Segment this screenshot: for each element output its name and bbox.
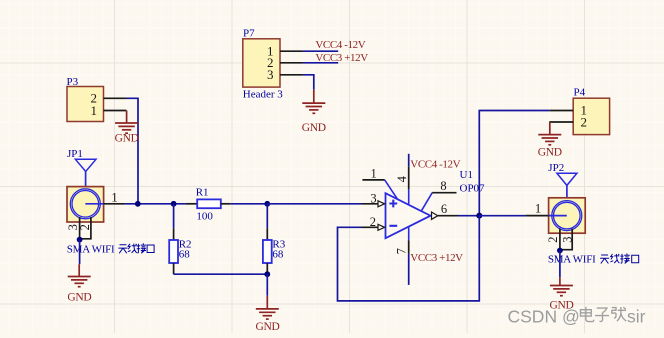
- P4 pin 2: [549, 121, 573, 123]
- P7 pin 3: [280, 74, 303, 76]
- connector P7: [243, 28, 284, 101]
- watermark CSDN @电子张sir: [508, 307, 646, 327]
- svg-text:68: 68: [179, 249, 191, 261]
- svg-text:sir: sir: [627, 307, 646, 327]
- junction node R2 branch: [171, 201, 177, 207]
- wire junction to ground: [266, 274, 268, 296]
- U1 pin 6 output: [432, 202, 459, 219]
- svg-text:CSDN @: CSDN @: [508, 307, 580, 327]
- svg-text:3: 3: [267, 67, 274, 82]
- JP1 pin 3: [79, 217, 81, 240]
- svg-text:2: 2: [581, 115, 588, 130]
- svg-text:GND: GND: [115, 133, 139, 145]
- label SMA WIFI 天线接口 JP1: [67, 243, 154, 255]
- wire JP2 pins to ground: [559, 251, 561, 278]
- P7 pin 1: [280, 50, 303, 52]
- resistor R1: [185, 186, 230, 222]
- svg-text:U1: U1: [460, 169, 473, 181]
- svg-text:2: 2: [78, 224, 92, 230]
- svg-text:4: 4: [395, 175, 409, 182]
- svg-text:VCC3 +12V: VCC3 +12V: [410, 252, 463, 264]
- ground below P3: [115, 111, 139, 145]
- P3 pin 2: [104, 97, 127, 99]
- svg-text:VCC4 -12V: VCC4 -12V: [410, 158, 460, 170]
- wire node to op-amp: [267, 203, 361, 205]
- wire P7 pin3 to ground: [303, 75, 314, 90]
- junction JP2 pins: [557, 248, 563, 254]
- ground below R3: [255, 296, 279, 333]
- U1 pin 4: [395, 166, 409, 205]
- svg-text:P4: P4: [574, 87, 586, 99]
- SMA connector JP2: [548, 162, 585, 233]
- resistor R2: [169, 204, 191, 274]
- JP2 pin 2: [559, 229, 561, 251]
- antenna symbol JP1: [75, 159, 96, 171]
- wire net VCC4 -12V: [303, 50, 338, 52]
- U1 pin 7: [395, 227, 409, 255]
- junction JP1 pins: [77, 237, 83, 243]
- wire R2 bottom to R3 bottom: [174, 273, 268, 275]
- resistor R3: [263, 204, 286, 274]
- svg-text:68: 68: [272, 249, 284, 261]
- svg-text:SMA WIFI: SMA WIFI: [548, 254, 596, 266]
- op-amp U1: [386, 169, 486, 238]
- feedback wire pin2 loop: [338, 216, 480, 301]
- wire R1 to node: [231, 203, 267, 205]
- svg-text:GND: GND: [538, 147, 562, 159]
- main wire JP1 to R1: [125, 203, 185, 205]
- JP2 pin 3: [560, 229, 572, 250]
- svg-text:8: 8: [440, 179, 446, 193]
- svg-text:Header 3: Header 3: [243, 88, 284, 100]
- svg-text:JP1: JP1: [67, 148, 83, 160]
- wire P3 pin2 to main node: [127, 98, 139, 204]
- junction node P3 branch: [135, 201, 141, 207]
- svg-text:GND: GND: [255, 321, 279, 333]
- P4 pin 1: [549, 110, 573, 112]
- JP1 pin 1: [104, 203, 125, 205]
- P3 pin 1: [104, 110, 127, 112]
- wire P4 pin1 to output node: [479, 111, 549, 216]
- ground below JP2: [549, 277, 573, 311]
- svg-text:1: 1: [111, 189, 118, 204]
- ground below P4 pin 2: [538, 122, 562, 159]
- junction node R3 branch: [264, 201, 270, 207]
- svg-text:1: 1: [535, 201, 542, 216]
- svg-text:VCC4 -12V: VCC4 -12V: [315, 39, 365, 51]
- wire net VCC3 +12V at pin 7: [408, 254, 410, 285]
- U1 pin 2: [362, 215, 385, 230]
- wire output to node: [458, 215, 479, 217]
- svg-text:7: 7: [395, 248, 409, 254]
- junction output node: [476, 213, 482, 219]
- JP2 pin 1: [526, 215, 549, 217]
- wire net VCC3 +12V: [303, 62, 338, 64]
- P7 pin 2: [280, 62, 303, 64]
- svg-text:3: 3: [561, 236, 575, 242]
- svg-text:2: 2: [370, 215, 376, 229]
- antenna symbol JP2: [557, 173, 577, 185]
- wire JP1 pins to ground: [79, 240, 81, 265]
- connector P3: [67, 76, 104, 122]
- U1 pin 8: [421, 179, 456, 211]
- svg-text:2: 2: [546, 236, 560, 242]
- wire output node to JP2: [479, 215, 525, 217]
- wire net VCC4 -12V at pin 4: [408, 154, 410, 167]
- svg-text:1: 1: [370, 166, 376, 180]
- svg-text:100: 100: [196, 210, 213, 222]
- label SMA WIFI 天线接口 JP2: [548, 254, 639, 266]
- JP1 pin 2: [80, 217, 91, 239]
- svg-text:GND: GND: [302, 122, 326, 134]
- svg-text:6: 6: [441, 202, 447, 216]
- svg-text:P7: P7: [243, 28, 255, 40]
- svg-text:JP2: JP2: [548, 162, 564, 174]
- SMA connector JP1: [67, 148, 104, 222]
- svg-text:1: 1: [91, 103, 98, 118]
- U1 pin 1: [362, 166, 397, 199]
- svg-text:R1: R1: [196, 186, 209, 198]
- ground below JP1: [67, 264, 91, 303]
- svg-text:OP07: OP07: [460, 183, 486, 195]
- junction R3 bottom: [264, 271, 270, 277]
- svg-text:3: 3: [370, 192, 376, 206]
- U1 pin 3: [362, 192, 385, 207]
- ground below P7: [302, 90, 326, 134]
- svg-text:GND: GND: [67, 291, 91, 303]
- svg-text:VCC3 +12V: VCC3 +12V: [315, 52, 368, 64]
- svg-text:SMA WIFI: SMA WIFI: [67, 243, 115, 255]
- connector P4: [573, 87, 609, 135]
